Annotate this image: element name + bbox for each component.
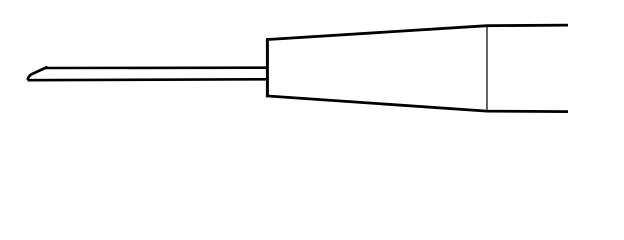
handle grip divider vertical xyxy=(486,27,488,112)
handle bottom outline xyxy=(266,96,568,112)
handle top outline xyxy=(266,25,568,39)
blade tip chamfer xyxy=(28,67,48,80)
blade bottom edge wire xyxy=(28,78,267,81)
blade top edge wire xyxy=(45,66,266,69)
ferrule front vertical xyxy=(266,38,269,97)
screwdriver line drawing xyxy=(0,0,624,148)
